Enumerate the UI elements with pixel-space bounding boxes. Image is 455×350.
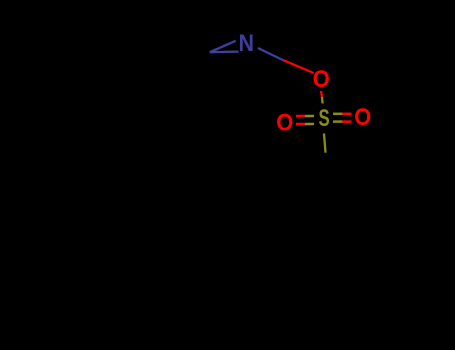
wire: left S=O lower line olive half — [305, 123, 314, 126]
wire: right S=O lower line olive half — [333, 120, 342, 123]
wire: right S=O upper line olive half — [333, 113, 342, 116]
wire: N-O bond red half — [283, 60, 314, 73]
wire: right S=O lower line red half — [342, 120, 351, 123]
wire: C=N double bond upper line — [210, 41, 236, 52]
wire: O-S bond olive half — [321, 97, 324, 104]
wire: S-C bond olive half (to aryl carbon, rest invisible on black) — [324, 134, 326, 153]
svg-text:O: O — [276, 109, 293, 136]
wire: left S=O upper line olive half — [305, 115, 314, 118]
wire: left S=O lower line red half — [296, 123, 305, 126]
wire: left S=O upper line red half — [296, 115, 305, 118]
wire: right S=O upper line red half — [342, 113, 351, 116]
wire: C=N double bond lower line — [210, 50, 239, 53]
svg-text:O: O — [354, 104, 371, 131]
svg-text:N: N — [239, 30, 255, 57]
svg-text:S: S — [319, 105, 330, 132]
wire: O-S bond red half — [320, 91, 323, 97]
svg-text:O: O — [313, 66, 330, 93]
wire: N-O bond blue half — [258, 48, 283, 60]
